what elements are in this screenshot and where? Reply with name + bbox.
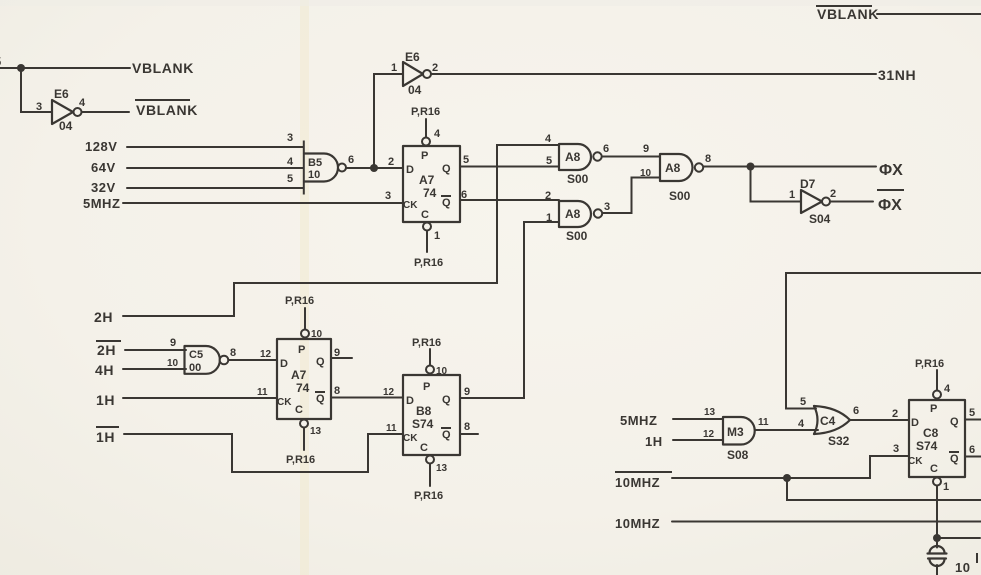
node 2H-bar label: [96, 341, 121, 358]
wire 2H route up to A8 pin 4: [123, 145, 559, 316]
svg-text:ΦX: ΦX: [879, 162, 903, 179]
wire junction to right edge: [937, 537, 980, 539]
svg-text:3: 3: [385, 190, 391, 202]
wire A8 pin 6 to A8 pin 9: [602, 143, 660, 157]
svg-text:E6: E6: [405, 50, 420, 64]
pin 2 label at A7 D: [388, 156, 394, 168]
pin 11 label at A7 lower CK: [257, 387, 268, 398]
svg-text:31NH: 31NH: [878, 67, 916, 83]
svg-text:S00: S00: [669, 189, 691, 203]
svg-text:3: 3: [893, 443, 899, 455]
svg-text:D: D: [911, 417, 919, 429]
nand gate A8 (S00) lower: [559, 201, 610, 243]
wire C8 Q pin 5 to right edge: [965, 407, 981, 420]
svg-text:64V: 64V: [91, 160, 116, 175]
pin 11 label at B8 CK: [386, 423, 397, 434]
svg-text:2: 2: [545, 190, 551, 202]
wire feedback from right edge down to C4 pin 5: [786, 273, 981, 409]
svg-text:5: 5: [969, 407, 975, 419]
flip-flop C8 (S74): [908, 400, 965, 477]
svg-text:S74: S74: [412, 417, 434, 431]
and gate M3 (S08): [703, 407, 769, 462]
wire 5MHZ to A7 CK pin 3: [123, 202, 403, 204]
svg-text:A8: A8: [565, 207, 581, 221]
wire 10MHZ-bar to C8 CK pin 3: [672, 456, 909, 478]
node 1H label bottom: [645, 434, 663, 449]
wire 5MHZ to M3 pin 13: [673, 418, 723, 420]
svg-text:C8: C8: [923, 426, 939, 440]
flip-flop A7 (74) lower: [277, 339, 331, 419]
wire C5 pin 8 to A7 D pin 12: [229, 359, 278, 361]
svg-text:1: 1: [789, 189, 795, 201]
node 5MHZ label bottom: [620, 413, 657, 428]
svg-text:C: C: [421, 209, 429, 221]
svg-text:8: 8: [464, 421, 470, 433]
svg-text:Q: Q: [316, 356, 325, 368]
B8 clear pin 13 pull-up P,R16: [414, 456, 448, 503]
wire D7 output to PHI X bar label: [831, 201, 874, 203]
svg-text:9: 9: [334, 347, 340, 359]
svg-text:5: 5: [463, 154, 469, 166]
svg-text:P,R16: P,R16: [285, 295, 314, 307]
svg-text:4: 4: [798, 418, 805, 430]
wire A7 Qbar pin 6 to A8 pin 2: [460, 189, 559, 201]
pin 10 label at middle A8: [640, 168, 652, 179]
node 4H label: [95, 362, 114, 378]
svg-text:10MHZ: 10MHZ: [615, 475, 660, 490]
svg-text:P: P: [930, 403, 937, 415]
svg-text:VBLANK: VBLANK: [817, 6, 879, 22]
svg-text:4: 4: [287, 156, 294, 168]
svg-text:74: 74: [296, 381, 310, 395]
svg-text:P,R16: P,R16: [412, 337, 441, 349]
svg-text:VBLANK: VBLANK: [136, 102, 198, 118]
svg-text:2: 2: [388, 156, 394, 168]
node junction below C8: [933, 534, 941, 542]
svg-text:D7: D7: [800, 177, 816, 191]
node junction to top inverter: [370, 164, 378, 172]
svg-text:5: 5: [287, 173, 293, 185]
svg-text:2: 2: [432, 62, 438, 74]
wire C4 pin 6 to C8 D pin 2: [850, 419, 909, 421]
svg-text:1: 1: [434, 230, 440, 242]
svg-text:S00: S00: [566, 229, 588, 243]
node VBLANK-bar top right: [816, 6, 879, 22]
wire up to inverter E6 top: [374, 74, 403, 168]
svg-text:10: 10: [308, 169, 320, 181]
wire B5 output to A7 D pin 2: [346, 167, 403, 169]
svg-text:4: 4: [545, 133, 552, 145]
svg-text:9: 9: [643, 143, 649, 155]
svg-text:6: 6: [969, 444, 975, 456]
svg-text:4: 4: [434, 128, 441, 140]
svg-text:S00: S00: [567, 172, 589, 186]
svg-text:4: 4: [944, 383, 951, 395]
svg-text:B8: B8: [416, 404, 432, 418]
svg-text:10: 10: [167, 358, 179, 369]
svg-text:12: 12: [383, 387, 395, 398]
pin 9 label at B8 Q: [464, 386, 470, 398]
svg-text:8: 8: [230, 347, 236, 359]
svg-text:S08: S08: [727, 448, 749, 462]
svg-text:C: C: [420, 442, 428, 454]
wire C8 Qbar pin 6 to right edge: [965, 444, 981, 457]
svg-text:10: 10: [640, 168, 652, 179]
svg-text:5MHZ: 5MHZ: [83, 196, 120, 211]
svg-text:C4: C4: [820, 414, 836, 428]
svg-text:2: 2: [892, 408, 898, 420]
pin 5 label at C4: [800, 396, 806, 408]
svg-text:E6: E6: [54, 87, 69, 101]
svg-text:6: 6: [348, 154, 354, 166]
node 2H label: [94, 309, 113, 325]
wire B8 Q pin 9 up to A8 pin 1: [460, 222, 559, 398]
svg-text:13: 13: [704, 407, 716, 418]
pin 3 label at C8 CK: [893, 443, 899, 455]
svg-text:P,R16: P,R16: [411, 106, 440, 118]
pin 1 label at lower A8: [546, 212, 552, 224]
svg-text:128V: 128V: [85, 139, 117, 154]
inverter D7 (S04): [789, 177, 836, 226]
svg-text:13: 13: [310, 426, 322, 437]
svg-text:8: 8: [705, 153, 711, 165]
wire M3 pin 11 to C4 pin 4: [755, 429, 818, 431]
svg-text:Q: Q: [442, 429, 451, 441]
wire 4H to C5 pin 10: [123, 368, 186, 370]
svg-text:P,R16: P,R16: [414, 257, 443, 269]
wire branch down to inverter E6: [21, 68, 52, 112]
svg-text:Q: Q: [950, 453, 959, 465]
inverter E6 (04) top: [391, 50, 438, 97]
wire 1H to M3 pin 12: [673, 439, 723, 441]
svg-text:9: 9: [170, 337, 176, 349]
svg-text:P,R16: P,R16: [915, 358, 944, 370]
svg-text:5: 5: [800, 396, 806, 408]
svg-text:1H: 1H: [96, 429, 115, 445]
svg-text:4: 4: [79, 97, 86, 109]
svg-text:P,R16: P,R16: [414, 490, 443, 502]
nand gate B5 (7410) 3-input: [287, 132, 354, 195]
A7 clear pin 1 pull-up P,R16: [414, 223, 443, 270]
node junction at VBLANK fork: [17, 64, 25, 72]
svg-text:11: 11: [758, 417, 769, 428]
svg-text:CK: CK: [403, 433, 418, 444]
node PHI X bar label: [877, 190, 904, 214]
node 64V label: [91, 160, 116, 175]
svg-text:8: 8: [334, 385, 340, 397]
svg-text:12: 12: [260, 349, 272, 360]
wire A7 Q pin 5 to A8 pin 5: [460, 154, 559, 167]
svg-text:3: 3: [36, 101, 42, 113]
wire 2H-bar to C5 pin 9: [125, 349, 186, 351]
svg-text:10: 10: [436, 366, 448, 377]
svg-text:P,R16: P,R16: [286, 454, 315, 466]
svg-text:10: 10: [955, 560, 970, 575]
svg-text:6: 6: [461, 189, 467, 201]
wire B8 Qbar pin 8 stub: [460, 421, 478, 434]
pin 4 label at C4: [798, 418, 805, 430]
inverter E6 (04) lower-left: [36, 87, 86, 133]
svg-text:9: 9: [464, 386, 470, 398]
svg-text:6: 6: [853, 405, 859, 417]
wire A8 pin 3 step up to A8 pin 10: [603, 178, 661, 214]
svg-text:6: 6: [603, 143, 609, 155]
flip-flop B8 (S74): [403, 375, 460, 455]
node 1H-bar label: [96, 427, 119, 445]
svg-text:2H: 2H: [97, 342, 116, 358]
pin 5 label at A8: [546, 155, 552, 167]
svg-text:A8: A8: [565, 150, 581, 164]
svg-text:VBLANK: VBLANK: [132, 60, 194, 76]
svg-text:11: 11: [386, 423, 397, 434]
svg-text:CK: CK: [403, 200, 418, 211]
svg-text:C: C: [930, 463, 938, 475]
svg-text:D: D: [406, 164, 414, 176]
C8 preset pin 4 pull-up P,R16: [915, 358, 951, 399]
svg-text:ΦX: ΦX: [878, 197, 902, 214]
wire 128V to B5 pin 3: [127, 146, 303, 148]
node 32V label: [91, 180, 116, 195]
svg-text:D: D: [406, 395, 414, 407]
wire A7 lower Q pin 9 stub: [331, 347, 352, 359]
wire A7 lower Qbar pin 8 to B8 D pin 12: [331, 385, 403, 398]
node 5MHZ label: [83, 196, 120, 211]
svg-text:P: P: [421, 150, 428, 162]
svg-text:04: 04: [59, 119, 73, 133]
node 31NH label: [878, 67, 916, 83]
pin 3 label at A7 CK: [385, 190, 391, 202]
nand gate A8 (S00) top: [559, 143, 609, 186]
node VBLANK label: [132, 60, 194, 76]
node PHI X label: [879, 162, 903, 179]
svg-text:2: 2: [830, 188, 836, 200]
wire from VBLANK-bar to right edge: [877, 13, 981, 15]
svg-text:32V: 32V: [91, 180, 116, 195]
B8 preset pin 10 pull-up P,R16: [412, 337, 448, 377]
wire 32V to B5 pin 5: [127, 187, 303, 189]
svg-text:Q: Q: [442, 197, 451, 209]
svg-text:1: 1: [391, 62, 397, 74]
svg-text:74: 74: [423, 186, 437, 200]
wire E6 output to VBLANK-bar label: [82, 111, 130, 113]
svg-text:10MHZ: 10MHZ: [615, 516, 660, 531]
svg-text:A7: A7: [419, 173, 435, 187]
pin 2 label at lower A8: [545, 190, 551, 202]
svg-text:1: 1: [943, 481, 949, 493]
node 10MHZ-bar label: [615, 472, 672, 490]
wire 10MHZ to right edge: [672, 521, 981, 523]
svg-text:Q: Q: [316, 393, 325, 405]
wire E6 output to 31NH: [432, 73, 877, 75]
svg-text:D: D: [280, 358, 288, 370]
wire junction down and right to edge: [787, 478, 981, 500]
wire 1H-bar route to B8 CK pin 11: [124, 434, 403, 472]
svg-text:12: 12: [703, 429, 715, 440]
pin 5 label at left edge: [0, 54, 2, 69]
paper crease: [300, 0, 309, 575]
A7 preset pin 4 pull-up P,R16: [411, 106, 441, 146]
pin 4 label at A8: [545, 133, 552, 145]
svg-text:13: 13: [436, 463, 448, 474]
svg-text:B5: B5: [308, 157, 322, 169]
svg-text:P: P: [298, 344, 305, 356]
node 128V label: [85, 139, 117, 154]
flip-flop A7 (74) top: [403, 146, 460, 222]
pin 12 label at A7 lower D: [260, 349, 272, 360]
svg-text:A8: A8: [665, 161, 681, 175]
svg-text:04: 04: [408, 83, 422, 97]
svg-text:4H: 4H: [95, 362, 114, 378]
A7 lower preset pin 10 pull-up P,R16: [285, 295, 323, 340]
svg-text:Q: Q: [442, 163, 451, 175]
C8 clear pin 1 wire down: [933, 478, 949, 539]
node VBLANK-bar label: [135, 100, 198, 118]
wire junction down to inverter D7: [751, 167, 802, 202]
svg-text:5: 5: [546, 155, 552, 167]
svg-text:11: 11: [257, 387, 268, 398]
A7 lower clear pin 13 pull-up P,R16: [286, 420, 322, 467]
wire A8 pin 8 to PHI X: [704, 166, 877, 168]
node junction on 10MHZ-bar: [783, 474, 791, 482]
svg-text:CK: CK: [277, 397, 292, 408]
svg-text:Q: Q: [950, 416, 959, 428]
connector pin 10 symbol: [928, 542, 978, 575]
svg-text:5MHZ: 5MHZ: [620, 413, 657, 428]
pin 2 label at C8 D: [892, 408, 898, 420]
or gate C4 (S32): [814, 405, 859, 448]
svg-text:A7: A7: [291, 368, 307, 382]
svg-text:3: 3: [287, 132, 293, 144]
svg-text:CK: CK: [908, 456, 923, 467]
nand gate C5 (00): [167, 337, 236, 374]
svg-text:Q: Q: [442, 394, 451, 406]
svg-text:00: 00: [189, 362, 201, 374]
svg-text:S74: S74: [916, 439, 938, 453]
svg-text:10: 10: [311, 329, 323, 340]
svg-text:C5: C5: [189, 349, 203, 361]
svg-text:2H: 2H: [94, 309, 113, 325]
svg-text:5: 5: [0, 54, 2, 69]
node junction PHI X: [747, 163, 755, 171]
svg-text:1H: 1H: [96, 392, 115, 408]
svg-text:P: P: [423, 381, 430, 393]
svg-text:M3: M3: [727, 425, 744, 439]
node 10MHZ label: [615, 516, 660, 531]
svg-text:C: C: [295, 404, 303, 416]
node 1H label: [96, 392, 115, 408]
wire 1H to A7 CK pin 11: [123, 397, 277, 399]
svg-text:S04: S04: [809, 212, 831, 226]
svg-text:3: 3: [604, 201, 610, 213]
wire VBLANK feed from left edge: [0, 67, 130, 69]
wire 64V to B5 pin 4: [127, 167, 303, 169]
nand gate A8 (S00) middle: [660, 153, 711, 203]
svg-text:S32: S32: [828, 434, 850, 448]
svg-text:1H: 1H: [645, 434, 663, 449]
